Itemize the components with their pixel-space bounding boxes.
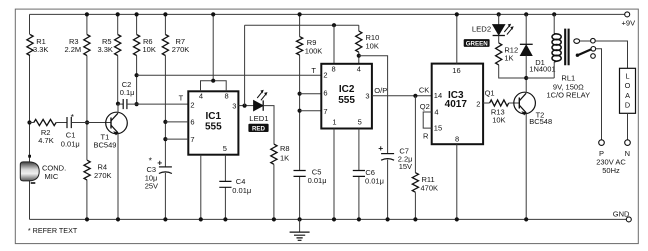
transistor T2 BC548 (514, 92, 552, 126)
svg-text:10K: 10K (492, 116, 505, 125)
node C4 bottom rail (223, 217, 227, 221)
node IC1 pin3 junction (243, 104, 247, 108)
pin 8 label IC2 (332, 64, 336, 73)
label P (599, 149, 604, 158)
node IC1 pin6 junction (163, 120, 167, 124)
svg-text:16: 16 (452, 66, 460, 75)
capacitor C3 10u 25V (145, 165, 172, 191)
wire coil top lead (553, 14, 555, 33)
wire R10 bottom to pin4 (358, 52, 360, 64)
wire left column (29, 14, 31, 219)
wire +9V top rail (30, 13, 625, 15)
label +9V (622, 19, 636, 28)
op-amp IC2 555 timer box (321, 64, 372, 129)
node R11 bottom rail (413, 217, 417, 221)
svg-text:8: 8 (225, 91, 229, 100)
pin 1 label IC2 (332, 117, 336, 126)
resistor R12 (496, 43, 519, 65)
wire IC1 pins 4-8 loop (201, 81, 227, 92)
wire IC1 Vcc column (212, 14, 214, 80)
label T trigger IC2 (311, 66, 316, 75)
label CK (419, 86, 429, 95)
pin 2 label IC2 (323, 70, 327, 79)
pin 3 label IC1 (232, 102, 236, 111)
svg-text:0.01μ: 0.01μ (61, 139, 80, 148)
wire R7-C3 column (164, 14, 166, 219)
LED LED2 green (472, 24, 514, 36)
capacitor C7 2.2u 15V (381, 147, 412, 172)
svg-text:4017: 4017 (445, 99, 468, 110)
svg-text:555: 555 (205, 122, 222, 133)
wire C1 to T1 base (71, 122, 111, 124)
svg-text:LED1: LED1 (249, 114, 268, 123)
node R8 bottom rail (272, 217, 276, 221)
label R reset (423, 132, 429, 141)
node IC3 pin8 rail (455, 217, 459, 221)
svg-text:R: R (423, 132, 429, 141)
node IC1 pin1 rail (199, 217, 203, 221)
node IC2 pin7 junction (298, 109, 302, 113)
svg-text:1C/O RELAY: 1C/O RELAY (546, 90, 590, 99)
svg-text:5: 5 (223, 144, 227, 153)
svg-text:0.01μ: 0.01μ (308, 176, 327, 185)
pin 14 label IC3 (434, 91, 442, 100)
capacitor C1 (61, 117, 80, 148)
wire reset bus (245, 24, 359, 26)
svg-text:50Hz: 50Hz (602, 166, 620, 175)
pin 8 label IC1 (225, 91, 229, 100)
wire IC2 pin8 drop (333, 25, 335, 64)
svg-text:C1: C1 (66, 130, 76, 139)
resistor R5 (98, 35, 121, 56)
svg-text:IC1: IC1 (206, 111, 222, 122)
pin 6 label IC2 (323, 89, 327, 98)
relay RL1 coil (546, 34, 590, 100)
op-amp IC3 4017 counter box (432, 64, 483, 145)
svg-text:0.01μ: 0.01μ (365, 177, 384, 186)
node IC2 pin1 rail (332, 217, 336, 221)
svg-text:2: 2 (323, 70, 327, 79)
svg-text:470K: 470K (421, 184, 439, 193)
wire pin3 riser to reset bus (244, 25, 246, 105)
label RED box (248, 124, 268, 133)
node R4 bottom rail (85, 217, 89, 221)
label Q1 (485, 89, 495, 98)
node bus to IC2 pin8 (332, 23, 336, 27)
wire T2 collector (525, 78, 527, 93)
wire LOAD to N terminal (627, 113, 629, 140)
resistor R6 (134, 35, 156, 56)
resistor R11 (412, 173, 438, 193)
svg-text:C4: C4 (236, 177, 246, 186)
wire IC2 pin7 (300, 110, 322, 112)
resistor R1 (27, 35, 49, 56)
node T2 emitter rail (524, 217, 528, 221)
wire trigger bus to IC2 pin2 (137, 74, 322, 76)
svg-text:1: 1 (332, 117, 336, 126)
svg-text:O/P: O/P (374, 86, 387, 95)
wire IC1 pin5 to C4 (224, 155, 226, 220)
asterisk refer-text C3 (149, 155, 153, 165)
wire contact to P terminal (596, 49, 602, 140)
svg-text:D: D (625, 101, 630, 110)
svg-text:+9V: +9V (622, 19, 636, 28)
node top rail R5 (116, 12, 120, 16)
node pins 4-8 loop (211, 79, 215, 83)
svg-text:8: 8 (455, 134, 459, 143)
pin 5 label IC2 (358, 117, 362, 126)
svg-text:P: P (599, 149, 604, 158)
wire IC3 pin16 to rail (456, 14, 458, 63)
capacitor C6 0.01u (353, 168, 384, 186)
pin 4 label IC2 (357, 64, 361, 73)
svg-text:3: 3 (365, 92, 369, 101)
svg-text:RED: RED (252, 125, 266, 132)
svg-text:555: 555 (338, 95, 355, 106)
pin 2 label IC3 (476, 100, 480, 109)
wire R11 column (414, 96, 416, 173)
wire R11 to rail (414, 192, 416, 219)
pin 4 label IC3 (434, 108, 438, 117)
svg-text:15: 15 (434, 123, 442, 132)
wire R5 column (117, 14, 119, 103)
wire T1 collector to C2 (118, 103, 123, 105)
label Q2 (420, 102, 430, 111)
node clock line R11 tap (413, 94, 417, 98)
node top rail R9 (298, 12, 302, 16)
ground (290, 219, 310, 240)
svg-text:R8: R8 (280, 144, 290, 153)
svg-text:3.3K: 3.3K (98, 45, 113, 54)
wire R10 junction to C7 column (359, 56, 388, 154)
node C2 to pin2 wire (135, 102, 139, 106)
note refer text (28, 226, 78, 235)
op-amp IC1 555 timer box (188, 91, 238, 154)
wire R6 column (136, 14, 138, 104)
transistor T1 BC549 (94, 112, 128, 149)
pin 2 label IC1 (190, 100, 194, 109)
node C3 bottom rail (163, 217, 167, 221)
terminal GND (626, 217, 631, 222)
wire R10 top drop (358, 25, 360, 31)
svg-text:0.01μ: 0.01μ (232, 186, 251, 195)
pin 4 label IC1 (199, 91, 203, 100)
pin 3 label IC2 (365, 92, 369, 101)
svg-text:4: 4 (434, 108, 438, 117)
node top rail IC1 Vcc (211, 12, 215, 16)
svg-text:3.3K: 3.3K (33, 45, 48, 54)
svg-text:BC548: BC548 (529, 117, 552, 126)
wire GND bottom rail (30, 218, 627, 220)
resistor R3 (65, 35, 91, 56)
wire D1 anode to node (525, 56, 527, 78)
svg-text:5: 5 (358, 117, 362, 126)
pin 7 label IC1 (190, 135, 194, 144)
node R4 top / C1 out (85, 120, 89, 124)
svg-text:+: + (378, 143, 383, 153)
svg-text:LED2: LED2 (472, 25, 491, 34)
wire C2 to IC1 pin2 (127, 103, 188, 105)
node top rail R7 (163, 12, 167, 16)
wire IC1 pin6 (165, 121, 188, 123)
svg-text:GREEN: GREEN (466, 40, 489, 47)
node top rail D1 (524, 12, 528, 16)
condenser mic MIC1 (20, 155, 66, 184)
asterisk refer-text C1 (71, 112, 75, 122)
wire R9 column (299, 14, 301, 219)
resistor R8 (271, 144, 290, 164)
wire IC2 pin5 to C6 (358, 129, 360, 220)
svg-text:T: T (179, 94, 184, 103)
node R2 input junction (27, 120, 31, 124)
wire IC3 pin4 to pin15 loop (423, 112, 432, 128)
svg-text:L: L (625, 72, 629, 81)
wire R12 to flyback node (499, 65, 527, 78)
terminal +9V (625, 12, 630, 17)
svg-text:Q1: Q1 (485, 89, 495, 98)
node IC2 pin6 junction (298, 92, 302, 96)
terminal P (599, 140, 605, 146)
wire coil bottom lead (553, 62, 555, 78)
node top rail R6 (135, 12, 139, 16)
wire C7 to rail (387, 160, 389, 220)
node C7 bottom rail (386, 217, 390, 221)
svg-text:2.2M: 2.2M (65, 45, 82, 54)
plus mark C3 (157, 157, 162, 167)
svg-text:T: T (311, 66, 316, 75)
svg-text:100K: 100K (305, 46, 323, 55)
svg-text:4.7K: 4.7K (38, 136, 53, 145)
node T1 emitter rail (116, 217, 120, 221)
wire IC1 pin7 (165, 138, 188, 140)
capacitor C4 0.01u (219, 177, 251, 195)
pin 7 label IC2 (323, 107, 327, 116)
resistor R9 (297, 37, 323, 56)
svg-text:A: A (625, 91, 630, 100)
svg-text:4: 4 (357, 64, 361, 73)
wire IC2 pin3 to IC3 pin14 (372, 95, 432, 97)
wire mic to R2 (30, 122, 34, 124)
diode D1 1N4001 (520, 44, 556, 73)
svg-text:7: 7 (190, 135, 194, 144)
capacitor C5 0.01u (294, 168, 327, 186)
wire IC3 pin2 to R13 (483, 102, 490, 104)
LED LED1 (249, 90, 268, 123)
svg-text:2: 2 (190, 100, 194, 109)
relay core (565, 29, 568, 66)
svg-text:6: 6 (190, 118, 194, 127)
node trigger bus tap (135, 73, 139, 77)
resistor R10 (356, 31, 380, 52)
svg-text:270K: 270K (94, 171, 112, 180)
pin 6 label IC1 (190, 118, 194, 127)
relay fixed contact top (591, 38, 596, 43)
svg-text:3: 3 (232, 102, 236, 111)
node C6 bottom rail (357, 217, 361, 221)
label GREEN box (464, 39, 490, 47)
node IC1 pin7 junction (163, 137, 167, 141)
relay pivot contact (574, 39, 580, 44)
svg-text:1N4001: 1N4001 (529, 65, 555, 74)
wire LED2 anode (498, 14, 500, 24)
wire R3-R4 column (86, 14, 88, 219)
relay moving contact (591, 47, 596, 52)
label N (625, 149, 630, 158)
svg-text:* REFER TEXT: * REFER TEXT (28, 226, 78, 235)
wire R13 to T2 base (509, 102, 520, 104)
pin 15 label IC3 (434, 123, 442, 132)
pin 5 label IC1 (223, 144, 227, 153)
svg-text:BC549: BC549 (94, 141, 117, 150)
svg-text:+: + (157, 157, 162, 167)
wire R8 to rail (273, 164, 275, 219)
svg-text:7: 7 (323, 107, 327, 116)
svg-text:10K: 10K (366, 42, 379, 51)
wire IC2 pin1 to rail (333, 129, 335, 220)
relay NO contact stub (591, 54, 596, 59)
svg-text:GND: GND (613, 209, 630, 218)
node top rail R3 (85, 12, 89, 16)
svg-text:6: 6 (323, 89, 327, 98)
svg-text:Q2: Q2 (420, 102, 430, 111)
wire D1 cathode to rail (525, 14, 527, 44)
wire LED1 to R8 (263, 106, 274, 145)
svg-text:2: 2 (476, 100, 480, 109)
svg-text:1K: 1K (280, 153, 289, 162)
wire IC1 pin3 out (238, 105, 253, 107)
label T trigger IC1 (179, 94, 184, 103)
svg-text:14: 14 (434, 91, 442, 100)
node C5 bottom rail (298, 217, 302, 221)
label GND (613, 209, 630, 218)
relay armature (576, 49, 592, 57)
wire IC1 pin1 to ground rail (200, 155, 202, 220)
wire contact to LOAD (580, 41, 628, 69)
plus mark C7 (378, 143, 383, 153)
wire T1 emitter (117, 133, 119, 219)
wire IC2 pin6 (300, 93, 322, 95)
wire R2 to C1 (56, 122, 67, 124)
node R10 bottom (357, 54, 361, 58)
node top rail relay coil (552, 12, 556, 16)
svg-text:1K: 1K (504, 54, 513, 63)
wire LED2 to R12 (498, 36, 500, 43)
label O/P (374, 86, 387, 95)
svg-text:270K: 270K (172, 45, 190, 54)
resistor R4 (84, 160, 112, 180)
resistor R13 (490, 100, 509, 125)
pin 16 label IC3 (452, 66, 460, 75)
svg-text:RL1: RL1 (561, 73, 575, 82)
svg-text:0.1μ: 0.1μ (120, 88, 135, 97)
wire T2 emitter (525, 113, 527, 219)
node top rail LED2 (497, 12, 501, 16)
svg-text:MIC: MIC (45, 172, 59, 181)
node T1 collector junction (116, 102, 120, 106)
wire T1 collector (117, 104, 119, 113)
capacitor C2 (120, 80, 135, 109)
load box (620, 68, 636, 113)
resistor R7 (162, 35, 189, 56)
wire node to coil bottom (526, 77, 554, 79)
pin 8 label IC3 (455, 134, 459, 143)
svg-text:4: 4 (199, 91, 203, 100)
wire IC3 pin8 to rail (456, 144, 458, 219)
svg-text:8: 8 (332, 64, 336, 73)
svg-text:O: O (625, 81, 631, 90)
svg-text:CK: CK (419, 86, 429, 95)
resistor R2 (34, 119, 56, 145)
node flyback junction (524, 76, 528, 80)
svg-text:25V: 25V (145, 182, 158, 191)
node top rail IC3 Vcc (455, 12, 459, 16)
terminal N (625, 140, 631, 146)
svg-text:N: N (625, 149, 630, 158)
svg-text:IC2: IC2 (339, 84, 355, 95)
svg-text:15V: 15V (399, 162, 412, 171)
label 230V AC 50Hz (596, 158, 626, 175)
svg-text:10K: 10K (143, 45, 156, 54)
